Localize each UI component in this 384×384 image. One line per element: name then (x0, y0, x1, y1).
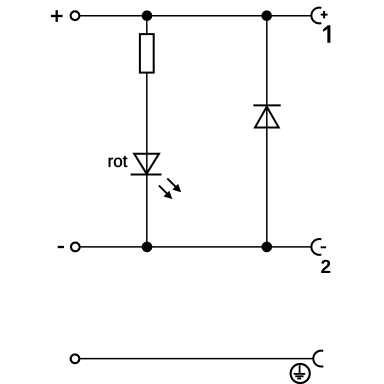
label + (positive supply) (51, 10, 63, 22)
ground symbol bar 3 (297, 378, 301, 380)
diode D2 cathode bar (253, 104, 280, 106)
junction dot bottom-right (262, 242, 273, 253)
label - (negative supply) (58, 246, 64, 248)
LED D1 triangle (134, 154, 159, 174)
label rot (109, 156, 128, 167)
diode D2 triangle (255, 107, 279, 128)
label + at terminal 1 (321, 11, 328, 19)
LED D1 cathode bar (131, 174, 162, 176)
ground symbol bar 1 (294, 373, 306, 375)
junction dot bottom-left (142, 242, 153, 253)
terminal circle, + input (71, 11, 80, 20)
ground symbol bar 2 (295, 375, 303, 377)
LED light arrow 1 (167, 178, 180, 191)
wire right branch (diode branch) (266, 16, 268, 247)
terminal arc 2 (- output) (311, 239, 321, 255)
label 2 (321, 260, 330, 273)
junction dot top-right (261, 10, 272, 21)
label - at terminal 2 (321, 246, 326, 248)
terminal arc 1 (+ output) (311, 8, 321, 24)
resistor R1 (140, 34, 154, 73)
label 1 (323, 25, 330, 42)
ground symbol (protective earth) circle (291, 364, 310, 383)
terminal arc earth (313, 351, 323, 367)
wire bottom rail (-) (80, 246, 311, 248)
LED light arrow 2 (159, 186, 172, 199)
terminal circle, - input (71, 243, 80, 252)
ground symbol stem (299, 365, 301, 373)
wire top rail (+) (80, 15, 312, 17)
junction dot top-left (142, 10, 153, 21)
wire left branch (LED branch) (146, 16, 148, 247)
wire earth conductor (80, 358, 314, 360)
terminal circle, earth input (71, 354, 80, 363)
